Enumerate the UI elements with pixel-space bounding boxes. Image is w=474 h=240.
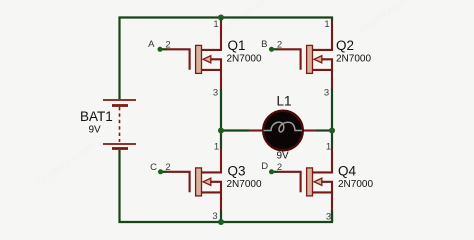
svg-text:BAT1: BAT1 bbox=[80, 109, 113, 124]
svg-text:9V: 9V bbox=[277, 151, 290, 162]
svg-text:B: B bbox=[261, 39, 267, 50]
svg-text:3: 3 bbox=[326, 212, 331, 223]
svg-text:2: 2 bbox=[277, 162, 282, 173]
svg-text:1: 1 bbox=[213, 19, 218, 30]
svg-text:3: 3 bbox=[213, 88, 218, 99]
svg-text:1: 1 bbox=[214, 141, 219, 152]
svg-text:2N7000: 2N7000 bbox=[227, 179, 262, 190]
svg-text:2N7000: 2N7000 bbox=[336, 54, 371, 65]
svg-text:C: C bbox=[150, 162, 157, 173]
svg-text:2N7000: 2N7000 bbox=[338, 179, 373, 190]
svg-text:Q4: Q4 bbox=[338, 164, 357, 179]
svg-text:Q1: Q1 bbox=[228, 38, 246, 53]
svg-text:2N7000: 2N7000 bbox=[227, 54, 262, 65]
svg-text:D: D bbox=[261, 161, 268, 172]
svg-text:1: 1 bbox=[324, 19, 329, 30]
svg-text:2: 2 bbox=[165, 162, 170, 173]
svg-text:A: A bbox=[148, 39, 155, 50]
svg-text:1: 1 bbox=[326, 141, 331, 152]
svg-text:2: 2 bbox=[165, 40, 170, 51]
svg-text:L1: L1 bbox=[277, 94, 292, 109]
svg-text:Q3: Q3 bbox=[228, 164, 246, 179]
svg-text:9V: 9V bbox=[89, 125, 102, 136]
svg-text:Q2: Q2 bbox=[336, 38, 354, 53]
svg-text:3: 3 bbox=[212, 211, 217, 222]
svg-text:2: 2 bbox=[277, 40, 282, 51]
svg-text:3: 3 bbox=[324, 88, 329, 99]
